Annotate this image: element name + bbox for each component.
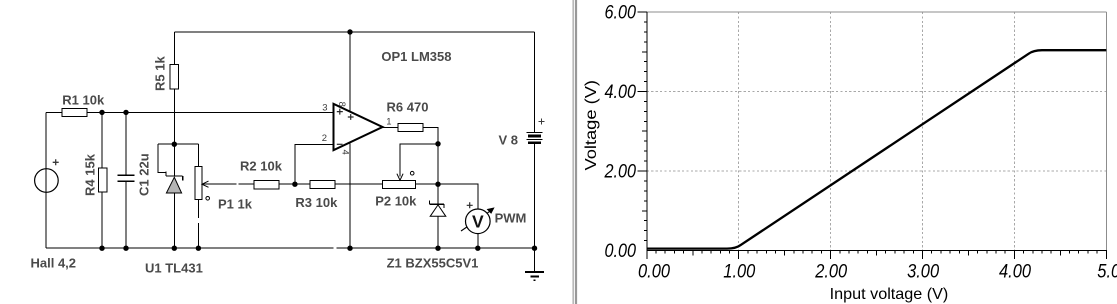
U1 TL431 — [166, 171, 183, 193]
resistor R5 — [170, 65, 178, 90]
resistor R2 — [254, 181, 279, 189]
voltmeter PWM — [461, 202, 495, 233]
wire node to R3 — [295, 183, 310, 185]
wire right rail battery top — [534, 32, 536, 133]
gridlines horizontal — [647, 92, 1107, 172]
wire op-amp V- pin 4 — [349, 144, 351, 249]
wire C1 bottom lead — [125, 181, 127, 248]
battery V — [527, 118, 545, 142]
y minor ticks — [644, 22, 647, 241]
plot right border — [1105, 12, 1107, 251]
wire bottom rail — [46, 247, 535, 249]
plot top border — [647, 11, 1107, 13]
svg-text:1: 1 — [386, 117, 391, 128]
wire C1 top lead — [125, 112, 127, 175]
wire TL431 ref lead — [158, 144, 166, 172]
wire R1 left lead — [46, 111, 62, 113]
wire R1 to op-amp pin 3 — [87, 111, 334, 113]
svg-text:R5 1k: R5 1k — [153, 56, 168, 91]
svg-text:4.00: 4.00 — [999, 262, 1031, 283]
x medium ticks — [693, 251, 1061, 256]
wire node row TL431/P1 — [158, 143, 198, 145]
resistor R4 — [99, 168, 107, 192]
svg-text:PWM: PWM — [495, 211, 527, 226]
svg-text:0.00: 0.00 — [638, 262, 670, 283]
x major ticks — [647, 251, 1107, 259]
wire R5 bottom lead — [173, 89, 175, 144]
wire Z1 bottom lead — [437, 216, 439, 248]
wire battery bottom to rail — [534, 144, 536, 249]
svg-text:3: 3 — [322, 102, 327, 113]
wire left vertical — [45, 112, 47, 248]
svg-text:2: 2 — [322, 133, 327, 144]
wire P1 bottom lead — [197, 200, 199, 249]
svg-text:Voltage (V): Voltage (V) — [583, 80, 600, 171]
gridlines vertical — [739, 12, 1015, 251]
svg-text:Input voltage (V): Input voltage (V) — [830, 286, 949, 303]
capacitor C1 — [117, 175, 134, 181]
svg-text:V: V — [472, 212, 484, 232]
potentiometer P2 — [382, 171, 415, 188]
potentiometer P1 — [195, 167, 210, 201]
ground — [525, 272, 544, 280]
svg-text:R6 470: R6 470 — [387, 100, 429, 115]
signal source VG1 Hall — [35, 159, 59, 192]
wire R3 to P2 — [335, 183, 382, 185]
wire Z1 top lead — [437, 184, 439, 204]
wire P2 right — [415, 183, 438, 185]
svg-text:C1 22u: C1 22u — [136, 153, 151, 196]
svg-text:R4 15k: R4 15k — [82, 153, 97, 196]
svg-text:R3 10k: R3 10k — [295, 195, 338, 210]
svg-text:R1 10k: R1 10k — [62, 93, 105, 108]
wire R4 bottom lead — [101, 192, 103, 248]
wire node to op-amp pin 2 — [295, 144, 333, 184]
wire P1 wiper to R2 — [202, 183, 254, 185]
wire ground stub — [534, 248, 536, 272]
curve transfer function — [647, 50, 1107, 248]
wire R4 top lead — [101, 112, 103, 168]
wire op-amp V+ pin 8 — [349, 32, 351, 111]
wire P1 top lead — [197, 144, 199, 166]
wire TL431 cathode lead — [173, 144, 175, 176]
svg-text:OP1 LM358: OP1 LM358 — [381, 49, 451, 64]
wire node to meter — [438, 184, 478, 209]
svg-text:6.00: 6.00 — [605, 3, 637, 24]
y major ticks — [638, 12, 647, 171]
svg-text:R2 10k: R2 10k — [240, 158, 283, 173]
wire TL431 anode lead — [173, 193, 175, 248]
resistor R6 — [398, 124, 423, 132]
wire op-amp output — [383, 127, 399, 129]
svg-text:8: 8 — [336, 102, 347, 107]
y medium ticks — [642, 52, 647, 211]
resistor R3 — [310, 180, 335, 188]
svg-text:3.00: 3.00 — [907, 262, 939, 283]
svg-text:P2 10k: P2 10k — [375, 194, 417, 209]
svg-text:1.00: 1.00 — [723, 262, 755, 283]
svg-text:5.00: 5.00 — [1097, 262, 1117, 283]
svg-text:Z1 BZX55C5V1: Z1 BZX55C5V1 — [387, 256, 479, 271]
svg-text:U1 TL431: U1 TL431 — [145, 260, 203, 275]
op-amp OP1 — [322, 102, 392, 155]
wire R2 to node — [279, 183, 295, 185]
svg-text:0.00: 0.00 — [605, 241, 637, 262]
wire meter bottom lead — [477, 234, 479, 249]
svg-text:P1 1k: P1 1k — [218, 196, 253, 211]
resistor R1 — [62, 109, 87, 117]
zener diode Z1 — [430, 200, 446, 216]
wire R5 top lead — [173, 32, 175, 65]
svg-text:Hall 4,2: Hall 4,2 — [31, 255, 77, 270]
y axis — [646, 12, 648, 251]
wire top rail — [174, 31, 534, 33]
wire R6 right to node — [423, 128, 438, 185]
x axis — [647, 250, 1107, 252]
svg-text:V 8: V 8 — [499, 132, 519, 147]
x minor ticks — [656, 251, 1097, 254]
svg-text:4.00: 4.00 — [605, 82, 637, 103]
svg-text:2.00: 2.00 — [814, 262, 847, 283]
svg-text:2.00: 2.00 — [604, 162, 637, 183]
divider — [573, 0, 578, 304]
wire feedback to P2 wiper — [400, 144, 438, 177]
svg-text:4: 4 — [339, 150, 350, 155]
